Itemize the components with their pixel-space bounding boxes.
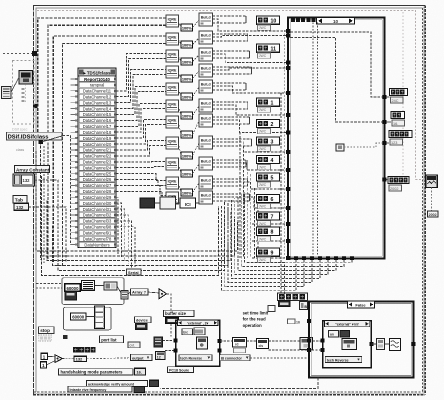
wire 通道选择 drop: [247, 263, 284, 300]
buffer size const 1500: [166, 318, 179, 324]
constant 4: [181, 75, 193, 82]
case bottom tunnels: [294, 256, 298, 260]
small node B: [300, 302, 308, 310]
property row DataChannel15: [79, 112, 115, 117]
property row Report10140: [79, 76, 115, 81]
class constant DSif.lDSifclass: [7, 132, 63, 140]
constant 2002: [428, 211, 439, 217]
wire: [71, 244, 79, 246]
case structure serial mode: [176, 320, 220, 366]
indicator 通道显示: [389, 131, 412, 138]
wire case interior vertical: [317, 23, 319, 257]
inner selector: [324, 321, 369, 327]
property row DataChannel24: [79, 165, 115, 170]
interface const: [134, 387, 145, 393]
subVI IQRE 8: [166, 137, 179, 149]
constant 8: [181, 152, 193, 159]
channel cluster 通道 5: [257, 173, 280, 181]
channel cluster 通道 1: [257, 98, 280, 106]
indicator TG模式: [390, 89, 408, 96]
wire: [71, 131, 79, 133]
channel cluster 通道 10: [257, 16, 280, 24]
wires property bottom rows down: [116, 197, 118, 254]
handshaking const: [135, 368, 146, 375]
constant 5: [181, 93, 193, 100]
case selector label: [317, 17, 355, 24]
wire: [94, 285, 104, 287]
subVI IQRE 11: [166, 192, 179, 204]
build node 3: [199, 48, 213, 61]
wires bottom row: [220, 340, 233, 342]
wires extra rows to case: [252, 223, 287, 225]
tech reverse dropdown: [179, 355, 212, 361]
channel cluster 通道 11: [257, 44, 280, 52]
wire: [71, 220, 79, 222]
build node 9: [199, 157, 213, 170]
subVI IQRE 6: [166, 100, 179, 112]
while loop border top: [33, 5, 425, 7]
build node 7: [199, 114, 213, 127]
case selector external 2: [178, 320, 219, 326]
constant 6: [181, 112, 193, 119]
build node 5: [199, 80, 213, 93]
wire case interior: [291, 32, 383, 97]
checkbox: [288, 319, 296, 324]
wires build output stubs: [213, 15, 247, 17]
indicator TG值: [391, 112, 404, 119]
wire: [71, 119, 79, 121]
wire: [25, 84, 27, 104]
subVI IQRE 1: [166, 15, 179, 27]
wire: [71, 232, 79, 234]
property row DataChannel23: [79, 159, 115, 164]
constant 60000 b: [71, 313, 87, 320]
property row DataChannel31: [79, 207, 115, 212]
inner case tunnels: [321, 339, 325, 343]
property node DSif: [78, 68, 116, 248]
wire: [71, 196, 79, 198]
label 通道选择: [277, 293, 307, 301]
array constant label: [15, 166, 50, 173]
False case tunnels: [307, 319, 311, 323]
subVI IQRE 10: [166, 177, 179, 189]
small white box left: [268, 306, 275, 312]
wire: [387, 96, 390, 98]
wire 132 to output: [86, 358, 130, 359]
wire junction: [39, 140, 43, 144]
while loop border bottom: [34, 391, 423, 393]
iteration terminal: [63, 335, 67, 339]
subVI IQRE 4: [166, 66, 179, 78]
build node 4: [199, 64, 213, 77]
property node small: [94, 306, 104, 329]
channel cluster 通道 7: [257, 212, 280, 220]
case right tunnels: [382, 95, 386, 99]
buffer size label: [164, 310, 195, 316]
node an: [329, 331, 339, 338]
node baud pair a: [182, 329, 193, 335]
wire case interior: [291, 38, 383, 123]
wire: [71, 125, 79, 127]
wire: [37, 11, 426, 180]
interface scan frequency label: [68, 386, 132, 392]
acknowledge const: [150, 380, 159, 386]
array constant: [13, 174, 35, 186]
wire: [387, 121, 391, 123]
property row DataChannel17: [79, 124, 115, 129]
VISA resource stack: [154, 337, 163, 347]
property row DataChannel98: [79, 224, 115, 229]
wire: [40, 142, 42, 260]
wire case interior vertical: [312, 23, 314, 257]
tech reverse dropdown 2: [325, 357, 362, 363]
subVI IQRE 9: [166, 158, 179, 170]
comparison triangle: [159, 289, 167, 299]
property row DataChannel91: [79, 230, 115, 235]
wire: [71, 173, 79, 175]
subVI IQRE 3: [166, 50, 179, 62]
False selector: [348, 301, 375, 308]
disable structure (dashed): [13, 61, 35, 125]
serial config frame 2: [64, 307, 112, 330]
wire band nest: [36, 151, 238, 251]
VISA read node: [233, 338, 247, 348]
wire: [71, 143, 79, 145]
wire staircase from case bottom: [222, 206, 297, 291]
wire: [3, 52, 32, 54]
merge node: [376, 339, 384, 350]
VISA name box: [156, 351, 166, 359]
subVI IQRE 7: [166, 116, 179, 128]
wire: [283, 30, 285, 258]
build node 10: [199, 176, 213, 189]
property row rampval: [79, 82, 115, 87]
case tunnels: [174, 339, 178, 343]
while loop border right: [422, 8, 424, 392]
connector dropdown: [220, 355, 251, 361]
Tab constant label: [13, 196, 27, 204]
wire triangle output: [167, 294, 172, 337]
constant 9: [181, 170, 193, 177]
baud icon: [65, 292, 77, 301]
property row DataChannel33: [79, 218, 115, 223]
case top tunnels: [291, 18, 295, 22]
special bottom row nodes: [140, 198, 155, 208]
case structure main: [288, 18, 385, 259]
PC8 source label: [168, 367, 194, 373]
constant 60000: [65, 284, 81, 291]
constant 2: [181, 41, 193, 48]
wire bundle: [239, 132, 241, 258]
wire inner to merge: [371, 343, 376, 345]
wire false drop: [160, 378, 318, 389]
cvt box: [128, 342, 140, 348]
while loop border left: [33, 6, 35, 395]
indicator 通道显示 2: [388, 177, 409, 184]
wire: [71, 161, 79, 163]
wire: [53, 36, 166, 263]
wire: [387, 142, 389, 144]
wire: [71, 113, 79, 115]
property row DataChannel13: [79, 100, 115, 105]
wire: [431, 188, 433, 212]
VISA open icon: [19, 71, 33, 85]
wires property outputs to subVIs: [116, 54, 166, 91]
property row DataChannel30: [79, 201, 115, 206]
wire: [71, 149, 79, 151]
channel cluster 通道 4: [257, 156, 280, 164]
property row DataChannel32: [79, 212, 115, 217]
wire: [71, 179, 79, 181]
wire: [71, 208, 79, 210]
wire: [71, 214, 79, 216]
property row DataChannel20: [79, 142, 115, 147]
wire: [71, 184, 79, 186]
Serial label: [127, 269, 142, 275]
wire: [71, 84, 79, 86]
VISA close node: [257, 339, 269, 349]
build node 2: [199, 31, 213, 44]
property row DataChannel18: [79, 130, 115, 135]
channel cluster 通道 2: [257, 120, 280, 128]
stop boolean terminal: [38, 335, 52, 341]
subVI IQRE 2: [166, 33, 179, 45]
VISA resource icon: [2, 87, 12, 99]
property row DataNumbers: [79, 242, 115, 247]
wire connector to false case: [250, 357, 309, 359]
wire: [71, 137, 79, 139]
property row DataChannel12: [79, 94, 115, 99]
constant 1: [181, 24, 193, 31]
multiply node: [55, 355, 63, 363]
property row DataChannel21: [79, 147, 115, 152]
wire into case serial: [163, 340, 174, 342]
wire: [48, 25, 166, 259]
wire: [63, 136, 71, 246]
wire: [35, 180, 59, 258]
constant 1 a: [41, 353, 47, 359]
build array small: [121, 290, 128, 299]
wires build outputs to case tunnels: [213, 19, 287, 31]
channel cluster 通道 8: [257, 227, 280, 235]
property row DataChannel19: [79, 136, 115, 141]
port list label: [100, 336, 124, 343]
wire: [71, 190, 79, 192]
output dropdown: [131, 354, 153, 360]
inner case structure external Inf: [323, 321, 372, 368]
channel cluster 通道 3: [257, 137, 280, 145]
wire: [47, 355, 55, 358]
wire: [344, 143, 383, 147]
constant 7: [181, 131, 193, 138]
channel cluster 通道 6: [257, 195, 280, 203]
property row DataChannel27: [79, 183, 115, 188]
wire: [71, 238, 79, 240]
node dark small: [340, 331, 350, 338]
center node trap: [197, 337, 208, 349]
wire: [71, 108, 79, 110]
property row DataChannel25: [79, 171, 115, 176]
wire: [71, 96, 79, 98]
wire: [62, 43, 166, 266]
Array label box: [131, 289, 149, 295]
property row DataChannel26: [79, 177, 115, 182]
waveform chart terminal: [426, 175, 438, 188]
bytes at port node: [342, 339, 357, 350]
wires IQRE to build: [178, 21, 181, 28]
subVI IQRE 5: [166, 83, 179, 95]
label 采集次数: [73, 347, 78, 353]
case left tunnels: [286, 29, 290, 33]
wire: [117, 286, 121, 293]
terminal 132: [74, 356, 87, 361]
wire: [387, 179, 388, 181]
error node: [300, 338, 313, 350]
wire: [38, 18, 166, 142]
wire: [71, 202, 79, 204]
handshaking mode parameters label: [59, 369, 134, 375]
wire: [86, 315, 94, 317]
property row DataChannel11: [79, 88, 115, 93]
wire: [71, 226, 79, 228]
wire: [155, 202, 161, 204]
wire: [280, 93, 282, 294]
case structure False: [309, 301, 414, 377]
device label: [135, 317, 152, 323]
node in case: [336, 144, 344, 151]
wire: [29, 207, 67, 262]
VISA configure serial icon: [82, 281, 95, 291]
node pair: [104, 282, 117, 290]
wire: [71, 90, 79, 92]
scribble indicator: [389, 339, 400, 351]
serial config frame 1: [62, 278, 124, 305]
wire junction: [33, 104, 38, 108]
wire: [71, 102, 79, 104]
wire junction: [32, 51, 37, 56]
wire: [71, 167, 79, 169]
device terminal: [136, 324, 148, 330]
wire: [71, 78, 79, 80]
property row DataChannel16: [79, 118, 115, 123]
stop label: [38, 327, 54, 334]
wire: [402, 12, 404, 178]
Tab constant: [14, 203, 29, 210]
property row DataChannel29: [79, 195, 115, 200]
build node 1: [199, 13, 213, 26]
channel cluster 通道 9: [257, 248, 280, 256]
acknowledge verify amount label: [87, 381, 148, 387]
constant 1 b: [40, 362, 46, 368]
wire: [42, 136, 63, 142]
terminal 通道选择 132: [278, 301, 290, 307]
VISA read sublabel: [234, 348, 246, 353]
build node 6: [199, 99, 213, 112]
wire: [71, 155, 79, 157]
wire: [11, 77, 19, 93]
wire: [43, 146, 45, 263]
property row DataChannel28: [79, 189, 115, 194]
property row DataChannel22: [79, 153, 115, 158]
build node 11: [199, 191, 213, 204]
property node header: [78, 68, 116, 76]
node baud pair b: [194, 328, 205, 335]
property row DataChannel14: [79, 106, 115, 111]
constant 3: [181, 58, 193, 65]
wire band nest outer: [41, 206, 218, 276]
wire left border to frame1: [36, 283, 62, 285]
property row DataChannel78: [79, 236, 115, 241]
build node 8: [199, 136, 213, 149]
constant 10: [181, 189, 193, 196]
